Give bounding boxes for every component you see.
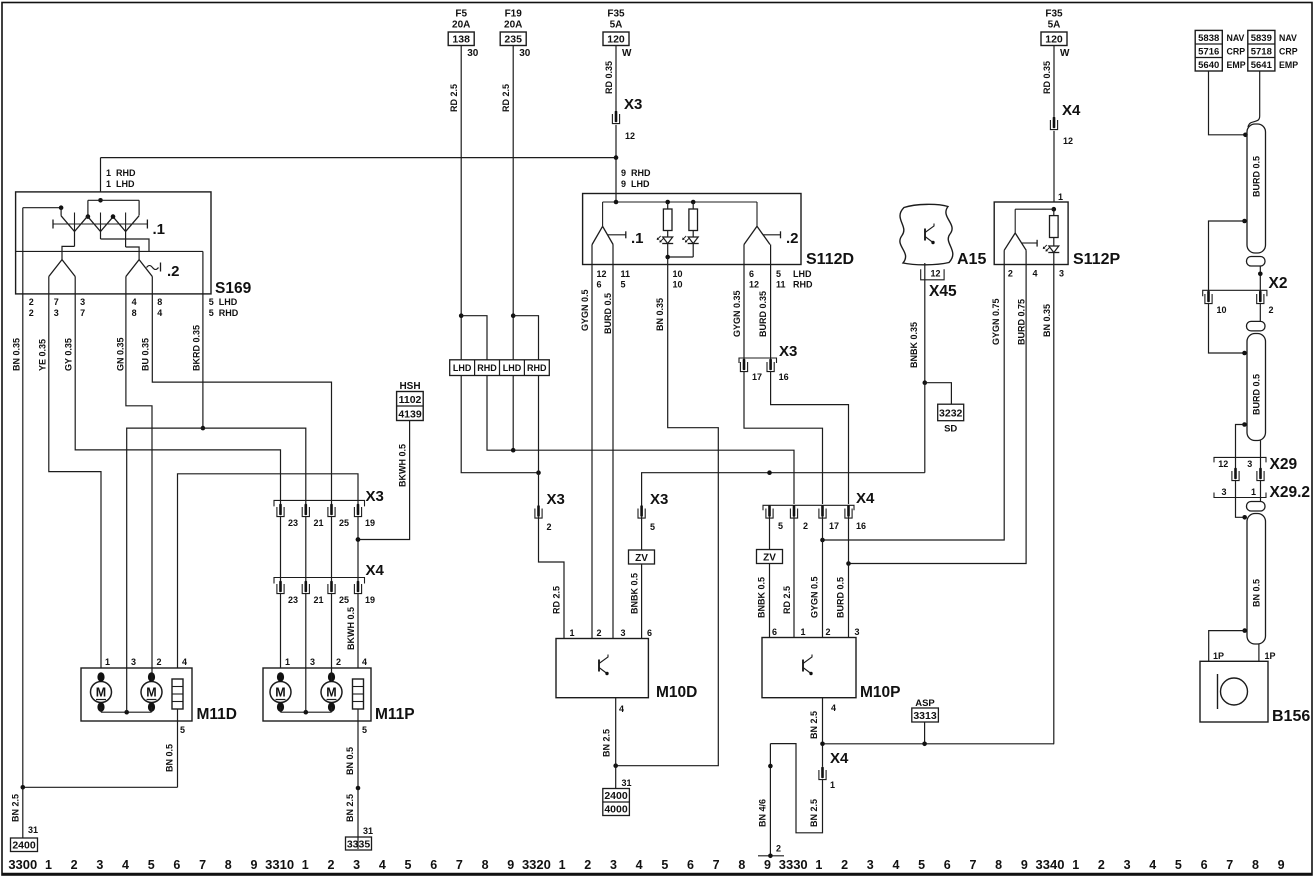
svg-text:17: 17	[829, 521, 839, 531]
svg-text:LHD: LHD	[793, 269, 812, 279]
svg-text:X3: X3	[547, 491, 565, 508]
svg-text:2: 2	[597, 628, 602, 638]
svg-text:SD: SD	[944, 424, 957, 435]
svg-text:8: 8	[738, 858, 745, 872]
svg-text:A15: A15	[957, 251, 986, 268]
svg-text:S112P: S112P	[1073, 251, 1120, 268]
svg-text:5: 5	[405, 858, 412, 872]
svg-text:3313: 3313	[913, 710, 937, 722]
svg-text:3: 3	[310, 657, 315, 667]
svg-text:16: 16	[779, 372, 789, 382]
svg-text:17: 17	[752, 372, 762, 382]
svg-text:X4: X4	[366, 562, 385, 579]
svg-text:31: 31	[363, 826, 373, 836]
svg-text:10: 10	[1217, 305, 1227, 315]
svg-text:12: 12	[597, 269, 607, 279]
svg-text:4: 4	[157, 308, 162, 318]
svg-text:M: M	[146, 686, 156, 700]
svg-text:F19: F19	[505, 9, 523, 20]
svg-text:3: 3	[610, 858, 617, 872]
svg-text:BURD 0.5: BURD 0.5	[603, 293, 613, 334]
svg-text:BNBK 0.5: BNBK 0.5	[630, 573, 640, 614]
svg-text:HSH: HSH	[399, 381, 420, 392]
svg-text:5: 5	[778, 521, 783, 531]
svg-text:8: 8	[157, 297, 162, 307]
svg-text:2: 2	[157, 657, 162, 667]
svg-text:3: 3	[131, 657, 136, 667]
svg-text:M10P: M10P	[860, 684, 901, 701]
svg-text:ZV: ZV	[763, 553, 776, 564]
svg-text:9: 9	[1021, 858, 1028, 872]
svg-text:16: 16	[856, 521, 866, 531]
svg-text:1: 1	[815, 858, 822, 872]
svg-text:10: 10	[673, 269, 683, 279]
svg-text:M11P: M11P	[375, 706, 415, 723]
svg-text:B156: B156	[1272, 708, 1310, 725]
svg-text:6: 6	[772, 627, 777, 637]
svg-text:BN 2.5: BN 2.5	[11, 794, 21, 822]
svg-text:5: 5	[918, 858, 925, 872]
svg-text:3: 3	[621, 628, 626, 638]
svg-text:W: W	[622, 48, 632, 59]
svg-text:GY 0.35: GY 0.35	[64, 338, 74, 371]
svg-text:30: 30	[519, 48, 531, 59]
svg-text:5640: 5640	[1198, 60, 1219, 71]
svg-text:M: M	[96, 686, 106, 700]
svg-text:1 RHD: 1 RHD	[106, 168, 136, 178]
svg-text:7: 7	[969, 858, 976, 872]
svg-text:BN 4/6: BN 4/6	[758, 799, 768, 827]
svg-text:CRP: CRP	[1279, 47, 1298, 57]
svg-text:7: 7	[199, 858, 206, 872]
svg-text:5: 5	[621, 280, 626, 290]
svg-text:X45: X45	[929, 283, 957, 300]
svg-text:4: 4	[362, 657, 367, 667]
svg-text:19: 19	[365, 518, 375, 528]
svg-text:1: 1	[1058, 192, 1063, 202]
svg-text:9 LHD: 9 LHD	[621, 179, 650, 189]
svg-text:8: 8	[995, 858, 1002, 872]
svg-text:RHD: RHD	[527, 363, 547, 373]
svg-text:5A: 5A	[610, 20, 623, 31]
svg-text:120: 120	[607, 34, 625, 46]
svg-text:6: 6	[1201, 858, 1208, 872]
svg-text:BN 0.5: BN 0.5	[165, 744, 175, 772]
svg-text:1: 1	[1251, 487, 1256, 497]
svg-text:25: 25	[339, 595, 349, 605]
svg-text:RD 2.5: RD 2.5	[782, 586, 792, 614]
svg-text:M: M	[326, 686, 336, 700]
svg-text:2: 2	[29, 297, 34, 307]
svg-text:6: 6	[430, 858, 437, 872]
svg-text:5: 5	[650, 522, 655, 532]
svg-text:2: 2	[327, 858, 334, 872]
svg-text:2: 2	[1098, 858, 1105, 872]
svg-text:LHD: LHD	[503, 363, 522, 373]
svg-text:1: 1	[570, 628, 575, 638]
svg-text:3: 3	[1247, 459, 1252, 469]
svg-text:RD 0.35: RD 0.35	[1042, 61, 1052, 94]
svg-text:12: 12	[749, 280, 759, 290]
svg-text:3: 3	[54, 308, 59, 318]
svg-text:21: 21	[314, 595, 324, 605]
svg-text:21: 21	[314, 518, 324, 528]
svg-text:5: 5	[362, 725, 367, 735]
svg-text:1 LHD: 1 LHD	[106, 179, 135, 189]
svg-text:F5: F5	[455, 9, 467, 20]
svg-text:4: 4	[132, 297, 137, 307]
svg-text:.2: .2	[167, 263, 180, 280]
svg-text:ASP: ASP	[915, 698, 935, 709]
svg-text:NAV: NAV	[1279, 33, 1297, 43]
svg-text:BNBK 0.35: BNBK 0.35	[909, 322, 919, 368]
svg-text:2: 2	[1269, 305, 1274, 315]
svg-text:1P: 1P	[1265, 651, 1276, 661]
svg-text:BN 0.35: BN 0.35	[12, 338, 22, 371]
svg-text:CRP: CRP	[1227, 47, 1246, 57]
svg-text:RHD: RHD	[793, 280, 813, 290]
svg-text:7: 7	[1226, 858, 1233, 872]
svg-text:3: 3	[855, 627, 860, 637]
svg-text:6: 6	[173, 858, 180, 872]
svg-text:3330: 3330	[779, 857, 808, 872]
svg-text:4: 4	[636, 858, 643, 872]
svg-text:120: 120	[1045, 34, 1063, 46]
svg-text:12: 12	[1218, 459, 1228, 469]
svg-text:2: 2	[336, 657, 341, 667]
svg-text:2: 2	[547, 522, 552, 532]
svg-text:BN 2.5: BN 2.5	[602, 729, 612, 757]
svg-text:BN 2.5: BN 2.5	[345, 794, 355, 822]
svg-text:.1: .1	[631, 230, 644, 247]
svg-text:23: 23	[288, 595, 298, 605]
svg-text:BURD 0.5: BURD 0.5	[836, 577, 846, 618]
svg-text:X3: X3	[779, 343, 797, 360]
svg-text:5839: 5839	[1251, 33, 1272, 44]
svg-text:5838: 5838	[1198, 33, 1219, 44]
svg-text:5A: 5A	[1048, 20, 1061, 31]
svg-text:6: 6	[687, 858, 694, 872]
svg-text:GYGN 0.35: GYGN 0.35	[732, 290, 742, 337]
svg-text:BKWH 0.5: BKWH 0.5	[398, 444, 408, 487]
svg-text:BURD 0.75: BURD 0.75	[1017, 299, 1027, 345]
svg-text:20A: 20A	[452, 20, 470, 31]
svg-text:11: 11	[776, 280, 786, 290]
svg-text:9 RHD: 9 RHD	[621, 168, 651, 178]
svg-text:9: 9	[764, 858, 771, 872]
svg-text:S169: S169	[215, 280, 252, 297]
svg-text:1: 1	[285, 657, 290, 667]
svg-text:.2: .2	[786, 230, 799, 247]
svg-text:M11D: M11D	[197, 706, 238, 723]
svg-text:X2: X2	[1269, 275, 1288, 292]
svg-text:5: 5	[148, 858, 155, 872]
svg-text:8: 8	[225, 858, 232, 872]
svg-text:2: 2	[776, 844, 781, 854]
svg-text:.1: .1	[153, 221, 166, 238]
svg-text:3232: 3232	[939, 408, 963, 420]
svg-text:GYGN 0.75: GYGN 0.75	[991, 298, 1001, 345]
svg-text:7: 7	[713, 858, 720, 872]
svg-text:3: 3	[867, 858, 874, 872]
svg-text:RHD: RHD	[477, 363, 497, 373]
svg-text:5: 5	[1175, 858, 1182, 872]
svg-text:2400: 2400	[604, 790, 628, 802]
svg-text:1: 1	[45, 858, 52, 872]
svg-text:4139: 4139	[398, 409, 422, 421]
svg-text:YE 0.35: YE 0.35	[38, 339, 48, 371]
svg-text:31: 31	[622, 778, 632, 788]
svg-text:7: 7	[80, 308, 85, 318]
svg-text:NAV: NAV	[1227, 33, 1245, 43]
svg-text:4: 4	[831, 703, 836, 713]
svg-text:25: 25	[339, 518, 349, 528]
svg-text:20A: 20A	[504, 20, 522, 31]
svg-text:X29.2: X29.2	[1270, 484, 1311, 501]
svg-text:GYGN 0.5: GYGN 0.5	[810, 576, 820, 618]
svg-text:3335: 3335	[347, 839, 371, 851]
svg-text:4: 4	[619, 704, 624, 714]
svg-text:9: 9	[250, 858, 257, 872]
svg-text:7: 7	[456, 858, 463, 872]
svg-text:RD 0.35: RD 0.35	[604, 61, 614, 94]
svg-text:5 RHD: 5 RHD	[209, 308, 239, 318]
svg-text:LHD: LHD	[453, 363, 472, 373]
svg-text:BNBK 0.5: BNBK 0.5	[757, 577, 767, 618]
svg-text:X4: X4	[856, 490, 875, 507]
svg-text:EMP: EMP	[1279, 60, 1298, 70]
svg-text:X3: X3	[624, 96, 642, 113]
svg-text:2: 2	[1008, 269, 1013, 279]
svg-text:S112D: S112D	[806, 251, 854, 268]
svg-text:BURD 0.5: BURD 0.5	[1252, 374, 1262, 415]
svg-text:11: 11	[621, 269, 631, 279]
svg-text:3: 3	[1059, 269, 1064, 279]
svg-text:5: 5	[180, 725, 185, 735]
svg-text:4: 4	[1149, 858, 1156, 872]
svg-text:1: 1	[1072, 858, 1079, 872]
svg-text:4: 4	[1033, 269, 1038, 279]
svg-text:F35: F35	[1045, 9, 1063, 20]
svg-text:4000: 4000	[604, 804, 628, 816]
svg-text:1P: 1P	[1213, 651, 1224, 661]
svg-text:BU 0.35: BU 0.35	[141, 338, 151, 371]
svg-text:3: 3	[1222, 487, 1227, 497]
svg-text:3: 3	[1124, 858, 1131, 872]
svg-text:31: 31	[28, 825, 38, 835]
svg-text:1: 1	[559, 858, 566, 872]
svg-text:2400: 2400	[12, 840, 36, 852]
svg-text:5: 5	[776, 269, 781, 279]
svg-text:8: 8	[132, 308, 137, 318]
svg-text:2: 2	[71, 858, 78, 872]
svg-text:3310: 3310	[265, 857, 294, 872]
svg-text:6: 6	[597, 280, 602, 290]
svg-text:X3: X3	[366, 488, 384, 505]
svg-text:3: 3	[353, 858, 360, 872]
svg-text:5 LHD: 5 LHD	[209, 297, 238, 307]
svg-text:BN 0.5: BN 0.5	[345, 747, 355, 775]
svg-text:X4: X4	[1062, 102, 1081, 119]
svg-text:3340: 3340	[1036, 857, 1065, 872]
svg-text:4: 4	[122, 858, 129, 872]
svg-text:3: 3	[80, 297, 85, 307]
svg-text:BKWH 0.5: BKWH 0.5	[346, 607, 356, 650]
svg-text:5: 5	[661, 858, 668, 872]
svg-text:2: 2	[841, 858, 848, 872]
svg-text:5716: 5716	[1198, 47, 1219, 58]
svg-text:6: 6	[944, 858, 951, 872]
svg-text:2: 2	[803, 521, 808, 531]
svg-text:8: 8	[482, 858, 489, 872]
svg-text:BN 2.5: BN 2.5	[809, 799, 819, 827]
svg-text:12: 12	[625, 131, 635, 141]
svg-text:BN 2.5: BN 2.5	[809, 711, 819, 739]
svg-text:RD 2.5: RD 2.5	[449, 84, 459, 112]
svg-text:GN 0.35: GN 0.35	[116, 337, 126, 371]
svg-text:1: 1	[830, 780, 835, 790]
svg-text:19: 19	[365, 595, 375, 605]
svg-text:BN 0.5: BN 0.5	[1252, 579, 1262, 607]
svg-text:6: 6	[749, 269, 754, 279]
svg-text:BN 0.35: BN 0.35	[1042, 304, 1052, 337]
svg-text:RD 2.5: RD 2.5	[552, 586, 562, 614]
svg-text:2: 2	[584, 858, 591, 872]
svg-text:BKRD 0.35: BKRD 0.35	[192, 325, 202, 371]
svg-text:BURD 0.35: BURD 0.35	[758, 291, 768, 337]
svg-text:9: 9	[507, 858, 514, 872]
svg-text:M: M	[275, 686, 285, 700]
svg-text:3: 3	[96, 858, 103, 872]
svg-text:12: 12	[1063, 136, 1073, 146]
svg-text:9: 9	[1278, 858, 1285, 872]
svg-text:GYGN 0.5: GYGN 0.5	[580, 289, 590, 331]
svg-text:138: 138	[452, 34, 470, 46]
svg-text:30: 30	[467, 48, 479, 59]
svg-text:X29: X29	[1270, 456, 1298, 473]
svg-text:5641: 5641	[1251, 60, 1273, 71]
svg-text:1: 1	[105, 657, 110, 667]
svg-text:BURD 0.5: BURD 0.5	[1252, 156, 1262, 197]
svg-text:3300: 3300	[8, 857, 37, 872]
svg-text:6: 6	[647, 628, 652, 638]
svg-text:4: 4	[892, 858, 899, 872]
svg-text:F35: F35	[607, 9, 625, 20]
svg-text:1: 1	[302, 858, 309, 872]
svg-text:4: 4	[182, 657, 187, 667]
svg-text:2: 2	[826, 627, 831, 637]
svg-text:RD 2.5: RD 2.5	[501, 84, 511, 112]
svg-text:12: 12	[931, 269, 941, 279]
svg-text:4: 4	[379, 858, 386, 872]
svg-text:2: 2	[29, 308, 34, 318]
svg-text:10: 10	[673, 280, 683, 290]
svg-text:X4: X4	[830, 750, 849, 767]
svg-text:5718: 5718	[1251, 47, 1272, 58]
svg-text:7: 7	[54, 297, 59, 307]
svg-text:W: W	[1060, 48, 1070, 59]
svg-text:8: 8	[1252, 858, 1259, 872]
svg-text:X3: X3	[650, 491, 668, 508]
svg-text:3320: 3320	[522, 857, 551, 872]
svg-text:EMP: EMP	[1227, 60, 1246, 70]
svg-text:M10D: M10D	[656, 684, 697, 701]
svg-text:BN 0.35: BN 0.35	[655, 298, 665, 331]
svg-text:ZV: ZV	[635, 553, 648, 564]
svg-text:1102: 1102	[399, 394, 422, 406]
svg-text:23: 23	[288, 518, 298, 528]
svg-text:1: 1	[801, 627, 806, 637]
svg-text:235: 235	[504, 34, 522, 46]
